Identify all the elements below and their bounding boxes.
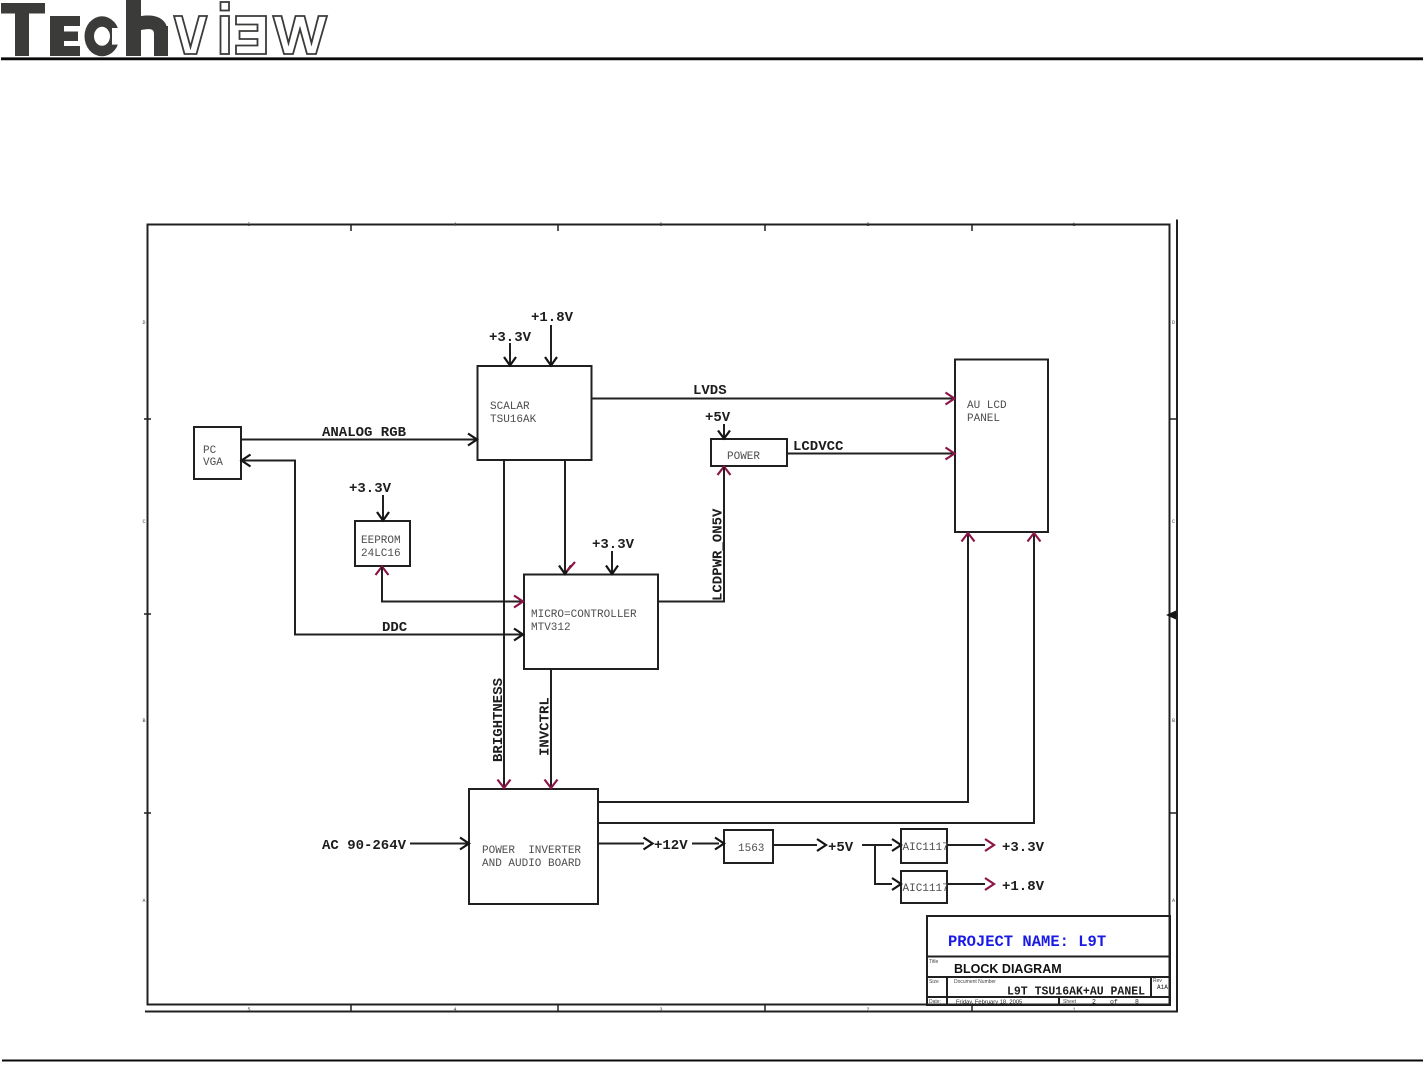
svg-text:Date:: Date: — [929, 999, 941, 1005]
svg-text:TSU16AK: TSU16AK — [490, 414, 537, 426]
block AU LCD PANEL — [955, 360, 1048, 533]
svg-text:of: of — [1110, 999, 1118, 1006]
svg-text:DDC: DDC — [382, 620, 408, 636]
wire DDC return to PC VGA — [242, 455, 524, 641]
svg-text:4: 4 — [453, 222, 456, 228]
footer rule — [2, 1060, 1423, 1062]
drawing frame outer right edge — [1176, 220, 1178, 1012]
svg-text:+5V: +5V — [828, 840, 854, 856]
svg-text:VGA: VGA — [203, 457, 223, 469]
svg-text:3: 3 — [659, 222, 662, 228]
svg-text:A: A — [142, 898, 145, 904]
bottom border zone ticks — [351, 1005, 972, 1012]
svg-text:+3.3V: +3.3V — [592, 537, 635, 553]
block POWER INVERTER AND AUDIO BOARD — [469, 789, 598, 904]
svg-text:3: 3 — [659, 1007, 662, 1013]
wire LVDS scalar to panel — [592, 393, 955, 405]
svg-text:AIC1117: AIC1117 — [903, 842, 949, 854]
wire EEPROM to MICRO-CONTROLLER — [376, 567, 524, 608]
block PC VGA — [194, 427, 241, 479]
wire +3.3V into SCALAR — [504, 343, 516, 366]
left border zone letters — [142, 320, 145, 904]
svg-text:INVCTRL: INVCTRL — [538, 697, 554, 756]
wire LCDVCC power to panel — [787, 448, 955, 460]
svg-text:8: 8 — [1135, 999, 1139, 1006]
svg-text:+1.8V: +1.8V — [531, 310, 574, 326]
svg-text:Document Number: Document Number — [954, 979, 996, 985]
wire +3.3V into EEPROM — [377, 495, 389, 521]
svg-text:C: C — [1172, 519, 1175, 525]
svg-text:5: 5 — [247, 222, 250, 228]
svg-text:BRIGHTNESS: BRIGHTNESS — [491, 678, 507, 762]
wire SCALAR to MICRO-CONTROLLER — [559, 460, 575, 574]
svg-text:Friday, February 18, 2005: Friday, February 18, 2005 — [956, 1000, 1022, 1006]
svg-text:AND AUDIO BOARD: AND AUDIO BOARD — [482, 858, 581, 870]
svg-text:1: 1 — [1072, 222, 1075, 228]
svg-text:+3.3V: +3.3V — [1002, 840, 1045, 856]
bottom border zone numbers — [247, 1007, 1075, 1013]
svg-text:A1A: A1A — [1157, 984, 1168, 991]
svg-text:1: 1 — [1072, 1007, 1075, 1013]
svg-text:2: 2 — [1092, 999, 1096, 1006]
svg-text:B: B — [1172, 718, 1175, 724]
svg-text:B: B — [142, 718, 145, 724]
right border mid-edge arrow — [1166, 611, 1176, 620]
svg-text:D: D — [142, 320, 145, 326]
header rule — [1, 57, 1423, 60]
svg-text:+1.8V: +1.8V — [1002, 879, 1045, 895]
block 1563 — [724, 830, 773, 863]
block AIC1117 lower — [901, 871, 949, 903]
svg-text:C: C — [142, 519, 145, 525]
svg-text:+3.3V: +3.3V — [349, 481, 392, 497]
wire +12V inverter to 1563 — [598, 838, 724, 850]
svg-text:BLOCK DIAGRAM: BLOCK DIAGRAM — [954, 962, 1062, 976]
block MICRO-CONTROLLER MTV312 — [524, 575, 658, 670]
drawing frame outer bottom edge — [145, 1011, 1178, 1013]
svg-text:Sheet: Sheet — [1063, 999, 1077, 1005]
svg-text:2: 2 — [866, 1007, 869, 1013]
top border zone numbers — [247, 222, 1075, 228]
Techview logo — [1, 0, 327, 56]
svg-text:MTV312: MTV312 — [531, 622, 571, 634]
wire +5V 1563 to AIC1117s — [773, 839, 901, 890]
svg-text:+12V: +12V — [654, 838, 688, 854]
wire +3.3V into MICRO-CONTROLLER — [606, 551, 618, 574]
svg-text:4: 4 — [453, 1007, 456, 1013]
block SCALAR TSU16AK — [478, 366, 592, 460]
svg-text:LCDPWR_ON5V: LCDPWR_ON5V — [711, 508, 727, 601]
svg-text:AU LCD: AU LCD — [967, 400, 1007, 412]
block POWER (LCD power) — [711, 439, 787, 466]
svg-text:AIC1117: AIC1117 — [903, 883, 949, 895]
wire INVCTRL mc to power inverter — [545, 669, 558, 788]
svg-text:L9T TSU16AK+AU PANEL: L9T TSU16AK+AU PANEL — [1007, 986, 1145, 999]
svg-text:PROJECT NAME: L9T: PROJECT NAME: L9T — [948, 933, 1106, 951]
svg-text:Size: Size — [929, 979, 939, 985]
wire +1.8V output — [947, 878, 994, 890]
wire panel riser 2 — [598, 533, 1041, 823]
title block — [927, 916, 1170, 1005]
wire +3.3V output — [947, 839, 994, 851]
svg-text:2: 2 — [866, 222, 869, 228]
svg-text:Title: Title — [929, 959, 938, 965]
svg-text:POWER INVERTER: POWER INVERTER — [482, 845, 581, 857]
wire ANALOG RGB pcvga to scalar — [241, 434, 477, 446]
wire LCDPWR_ON5V mc to power — [659, 467, 731, 602]
svg-text:+5V: +5V — [705, 410, 731, 426]
svg-text:POWER: POWER — [727, 451, 760, 463]
svg-text:LVDS: LVDS — [693, 383, 727, 399]
wire BRIGHTNESS scalar to power inverter — [498, 460, 511, 788]
top border zone ticks — [351, 225, 972, 232]
left border zone ticks — [144, 419, 151, 813]
wire AC input — [410, 838, 469, 850]
wire panel riser 1 — [598, 533, 975, 802]
drawing frame inner border — [148, 225, 1170, 1005]
svg-text:PC: PC — [203, 445, 217, 457]
svg-text:MICRO=CONTROLLER: MICRO=CONTROLLER — [531, 609, 637, 621]
block AIC1117 upper — [901, 829, 949, 863]
svg-text:EEPROM: EEPROM — [361, 535, 401, 547]
right border zone ticks — [1170, 419, 1178, 813]
svg-text:5: 5 — [247, 1007, 250, 1013]
svg-text:SCALAR: SCALAR — [490, 401, 530, 413]
wire +1.8V into SCALAR — [545, 325, 557, 366]
svg-text:24LC16: 24LC16 — [361, 548, 401, 560]
block EEPROM 24LC16 — [355, 521, 410, 566]
svg-text:PANEL: PANEL — [967, 413, 1000, 425]
svg-text:AC 90-264V: AC 90-264V — [322, 838, 407, 854]
right border zone letters — [1172, 320, 1175, 904]
wire +5V into POWER — [718, 424, 730, 439]
svg-text:D: D — [1172, 320, 1175, 326]
svg-text:1563: 1563 — [738, 843, 764, 855]
svg-text:A: A — [1172, 898, 1175, 904]
